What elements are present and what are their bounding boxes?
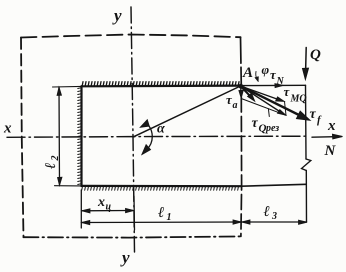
svg-text:φ: φ — [262, 62, 270, 77]
svg-text:x: x — [97, 195, 105, 210]
tau_N arrowhead on horizontal line — [275, 84, 284, 88]
left extension line for dims — [80, 190, 82, 228]
bracket line from plate corner to load point — [241, 84, 305, 86]
force N arrow — [312, 136, 341, 139]
ink blob at junction A — [238, 84, 243, 89]
dimension l2 extension is plate edges; l2 dimension line — [58, 88, 61, 185]
break (zigzag) symbol — [302, 159, 311, 171]
outer dashed contour top edge — [21, 35, 241, 38]
extension line for l2 at plate bottom — [55, 185, 82, 187]
svg-text:f: f — [317, 114, 322, 126]
bracket right vertical line — [305, 85, 308, 159]
svg-text:1: 1 — [167, 212, 172, 223]
svg-text:τ: τ — [310, 107, 317, 122]
dimension l1 line — [81, 221, 241, 224]
svg-text:x: x — [327, 118, 336, 134]
plate left edge (welded) — [80, 86, 82, 186]
svg-text:τ: τ — [252, 116, 259, 131]
dimension x_c line — [82, 210, 134, 212]
svg-text:MQ: MQ — [290, 94, 307, 105]
short thick 45-degree vector at A — [241, 86, 252, 97]
svg-text:ц: ц — [106, 202, 112, 213]
vector tau_MQ — [241, 86, 280, 100]
parallelogram connector from tau_a tip — [241, 99, 286, 116]
plate top weld ticks — [82, 82, 239, 86]
extension line for l2 at plate top — [53, 85, 82, 88]
x axis (dash-dot) — [7, 136, 306, 137]
svg-text:рез: рез — [265, 123, 279, 134]
plate bottom edge (welded) — [82, 185, 242, 188]
plate top edge (welded) — [82, 84, 242, 87]
svg-text:y: y — [120, 248, 130, 267]
plate bottom weld ticks — [82, 186, 239, 190]
y axis extension through dims — [133, 196, 136, 230]
alpha angle arc with arrows — [146, 123, 152, 150]
svg-text:τ: τ — [284, 84, 291, 99]
svg-text:N: N — [324, 143, 337, 159]
svg-text:ℓ: ℓ — [264, 204, 270, 220]
svg-text:Q: Q — [310, 47, 321, 63]
vector tau_f (thick resultant) — [241, 86, 301, 116]
phi leader arrow — [256, 72, 257, 80]
plate left weld ticks — [78, 88, 82, 185]
svg-text:α: α — [157, 122, 165, 137]
outer contour bottom edge (dash-dot) — [24, 236, 242, 237]
label leader for tau_Q_rez — [267, 109, 270, 117]
svg-text:x: x — [3, 121, 12, 137]
dimension l3 line — [242, 221, 307, 223]
outer dashed contour left edge — [21, 38, 24, 238]
bracket bottom edge extension — [242, 184, 306, 186]
force Q arrow — [305, 48, 308, 72]
label l2 (rotated) — [43, 156, 61, 170]
parallelogram connector from tau_MQ tip — [285, 102, 287, 116]
svg-text:3: 3 — [271, 211, 277, 222]
svg-text:ℓ: ℓ — [43, 163, 59, 169]
svg-text:a: a — [233, 100, 238, 111]
svg-text:y: y — [112, 6, 122, 25]
svg-text:A: A — [242, 65, 253, 81]
y axis (dash-dot) — [131, 7, 135, 252]
outer dashed contour right edge / plate right edge — [240, 37, 243, 85]
vector tau_a (vertical, down from A) — [240, 86, 242, 93]
vector tau_Q_rez — [241, 86, 281, 112]
svg-text:2: 2 — [50, 156, 61, 162]
svg-text:ℓ: ℓ — [158, 205, 164, 221]
bracket right vertical line lower part — [305, 171, 307, 223]
radius line O to A (alpha line) — [134, 86, 241, 137]
